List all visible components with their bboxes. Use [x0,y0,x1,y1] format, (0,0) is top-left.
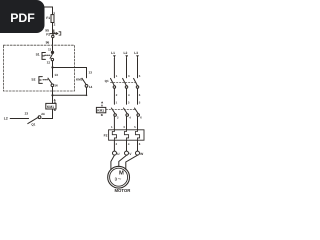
mechanical link coil to poles [106,109,135,111]
wire to motor 3 [126,155,138,169]
fuse F1 [51,15,54,23]
svg-text:KM1: KM1 [97,109,104,113]
contactor KM1 pole 1 [111,108,115,114]
svg-text:2: 2 [54,22,56,26]
svg-text:14: 14 [54,84,58,88]
contactor KM1 pole 2 [124,108,128,114]
disconnector Q1 pole 2 [123,78,127,85]
wire phase 2 [126,58,128,78]
wire phase 3 [137,88,139,104]
arrow above coil A (power) [101,101,103,103]
wire phase 3 [137,58,139,78]
motor terminal U [113,151,117,155]
svg-text:13: 13 [54,73,58,77]
wire phase 1 [113,88,115,104]
wire aux branch [53,68,87,78]
svg-text:11: 11 [48,48,52,52]
motor terminal V [125,151,129,155]
wire [52,95,54,103]
supply arrow L3 [137,56,139,58]
svg-text:14: 14 [89,85,93,89]
svg-text:L1: L1 [111,51,115,55]
heater element 1 [112,130,116,140]
arrow above coil A (control) [54,99,56,101]
disconnector Q1 pole 3 [134,78,138,85]
wire [52,38,54,52]
svg-text:S1: S1 [36,53,40,57]
wire to motor 2 [119,155,127,166]
wire [52,61,54,68]
wire from L2 [10,118,28,120]
svg-text:MOTOR: MOTOR [114,188,131,193]
svg-text:F2: F2 [46,32,50,36]
heater element 2 [124,130,128,140]
wire phase 3 [137,140,139,151]
disconnector Q1 pole 1 [111,78,115,85]
svg-text:PDF: PDF [10,11,35,25]
motor M1 circle [108,166,130,188]
dashed enclosure box [3,45,74,91]
svg-text:23: 23 [25,112,29,116]
heater element 3 [135,130,139,140]
svg-text:S2: S2 [31,78,35,82]
svg-text:12: 12 [47,60,51,64]
contactor KM1 pole 3 [135,108,139,114]
svg-text:1: 1 [53,11,55,15]
wire [52,23,54,30]
supply arrow L2 [126,56,128,58]
wire phase 1 [113,140,115,151]
wire to Q1 aux [42,109,53,119]
svg-text:96: 96 [46,41,50,45]
wire phase 2 [126,140,128,151]
svg-text:F2: F2 [104,134,108,138]
pushbutton S2 (start, NO) [52,68,54,78]
coil KM1 [46,103,56,109]
overload trip contact F2 95-96 [50,29,58,35]
svg-text:F1: F1 [46,16,50,20]
supply arrowheads [54,55,139,103]
wire phase 1 [113,58,115,78]
wire feed top [44,7,53,15]
node junction [51,66,53,68]
contact Q1 23-24 (aux) [38,116,41,119]
motor terminal W [136,151,140,155]
overload relay F2 box [109,130,144,140]
PDF badge [0,0,45,33]
node junction [51,94,53,96]
svg-text:Q1: Q1 [31,122,35,126]
svg-text:L2: L2 [123,51,127,55]
svg-text:L3: L3 [134,51,138,55]
svg-text:L2: L2 [4,116,8,120]
svg-text:24: 24 [41,112,45,116]
contact KM1 13-14 (aux, NO) [82,78,86,84]
svg-text:~: ~ [118,176,122,183]
mechanical link Q1 [110,81,136,83]
svg-text:KM1: KM1 [76,78,83,82]
pushbutton S1 (stop, NC) [51,51,53,53]
svg-text:13: 13 [89,71,93,75]
wire phase 2 [126,88,128,104]
supply arrow L1 [113,56,115,58]
wire to motor 1 [111,155,115,169]
coil KM1 (power) [96,107,105,112]
svg-text:Q1: Q1 [105,79,109,83]
